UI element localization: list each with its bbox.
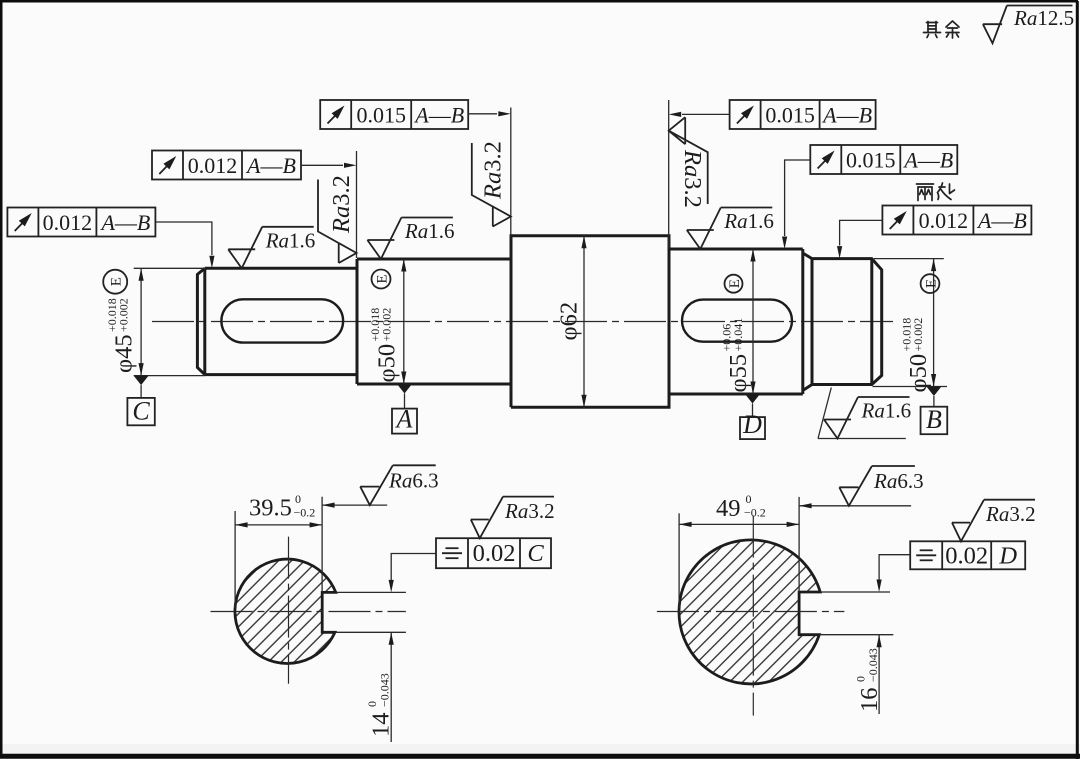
extension line of φ45/φ50 shoulder (356, 151, 358, 258)
φ50 dimension line with arrows (left) (403, 259, 405, 384)
datum B symbol (926, 387, 941, 397)
svg-text:39.5: 39.5 (249, 495, 292, 522)
Ra3.2 rotated at φ45/φ50 shoulder (318, 180, 357, 264)
right section vertical centerline (752, 516, 754, 716)
svg-text:D: D (742, 410, 762, 439)
dimension 39.5 extension lines (234, 511, 236, 608)
Ra6.3 symbol for right section (839, 466, 915, 506)
svg-text:Ra6.3: Ra6.3 (873, 469, 924, 493)
shaft section φ55 outline (669, 249, 803, 394)
Ra1.6 on φ45 surface (228, 227, 314, 268)
svg-text:Ra3.2: Ra3.2 (679, 149, 706, 208)
svg-text:0.015: 0.015 (765, 103, 815, 128)
svg-text:A—B: A—B (245, 153, 296, 178)
left section vertical centerline (288, 537, 290, 684)
FCF runout 0.012 A-B (far left) (7, 208, 155, 237)
FCF runout 0.015 A-B (top middle) (320, 100, 468, 129)
shaft section φ62 outline (511, 236, 669, 407)
svg-text:+0.002: +0.002 (117, 298, 131, 332)
svg-text:0.012: 0.012 (43, 210, 93, 235)
keyway slot on φ55 section (682, 300, 792, 342)
Ra6.3 leader for left section (322, 504, 387, 506)
svg-text:0.02: 0.02 (473, 540, 516, 567)
svg-text:B: B (926, 405, 942, 434)
datum C symbol (134, 376, 149, 386)
svg-text:E: E (924, 279, 940, 288)
Ra3.2 above symmetry FCF (left) (471, 497, 554, 539)
Ra6.3 symbol for left section (360, 465, 436, 505)
leader of far-left FCF to φ45 surface (155, 222, 212, 255)
φ45 dimension text with tolerance and E (105, 298, 138, 373)
leader of right-middle FCF down to φ55 surface (785, 160, 811, 236)
shaft φ45 chamfer line (203, 268, 206, 374)
label 两处 (two places) (917, 183, 955, 201)
leader of right-upper FCF to φ62 right extension line (682, 113, 730, 115)
Ra1.6 on φ55 surface (687, 208, 773, 250)
svg-text:E: E (727, 279, 743, 288)
Ra1.6 at right-end lower chamfer with leader (818, 388, 906, 439)
svg-text:D: D (998, 542, 1017, 569)
svg-text:Ra6.3: Ra6.3 (388, 469, 439, 493)
shaft main centerline (152, 321, 893, 323)
svg-text:0: 0 (295, 492, 301, 506)
dimension 49 extension lines (678, 513, 680, 608)
dimension text 14 0/-0.043 rotated (365, 673, 395, 737)
extension line of φ62 left face (510, 108, 512, 235)
leader of right-lower FCF down to right-end surface (840, 220, 883, 245)
svg-text:0.015: 0.015 (356, 103, 406, 128)
svg-text:Ra1.6: Ra1.6 (404, 219, 455, 243)
svg-text:A—B: A—B (821, 103, 872, 128)
symmetry FCF 0.02 C (436, 538, 551, 568)
svg-text:Ra12.5: Ra12.5 (1013, 6, 1074, 30)
FCF runout 0.015 A-B (right upper) (730, 100, 876, 129)
keyway width extension lines (right section) (820, 591, 890, 593)
svg-text:+0.002: +0.002 (380, 308, 394, 342)
leader of top-middle FCF to φ62 extension line (468, 113, 497, 115)
svg-text:E: E (375, 274, 391, 283)
svg-text:49: 49 (716, 495, 741, 522)
keyway width extension lines (left section) (336, 591, 406, 593)
φ55 dimension text with tolerance and E (720, 318, 753, 393)
svg-text:0.015: 0.015 (846, 148, 896, 173)
Ra3.2 rotated at φ62 right shoulder (669, 117, 708, 204)
keyway depth dimension 16 with arrows (878, 635, 880, 714)
keyway slot on φ45 section (221, 299, 343, 342)
svg-text:C: C (527, 540, 544, 567)
svg-text:−0.043: −0.043 (866, 648, 880, 682)
φ62 dimension line with arrows (583, 236, 585, 407)
svg-text:A: A (395, 405, 413, 434)
φ50 dimension extension lines (right) (874, 258, 944, 260)
svg-text:+0.002: +0.002 (911, 318, 925, 352)
svg-text:C: C (132, 396, 150, 425)
svg-text:φ50: φ50 (374, 344, 401, 383)
svg-text:0.012: 0.012 (919, 208, 969, 233)
svg-text:0.02: 0.02 (945, 542, 988, 569)
svg-text:A—B: A—B (976, 208, 1027, 233)
svg-text:φ55: φ55 (725, 354, 752, 393)
symmetry FCF 0.02 D (910, 541, 1025, 569)
svg-text:0: 0 (746, 492, 752, 506)
left section hatched circle with keyway (235, 559, 336, 663)
φ50 dimension text with tolerance and E (right) (900, 318, 933, 393)
svg-text:A—B: A—B (99, 210, 150, 235)
Ra3.2 above symmetry FCF (right) (952, 500, 1035, 542)
svg-text:A—B: A—B (902, 148, 953, 173)
FCF runout 0.012 A-B (upper left) (152, 151, 301, 180)
svg-text:Ra1.6: Ra1.6 (265, 228, 316, 252)
Ra3.2 rotated at φ62 left shoulder (472, 143, 511, 227)
FCF runout 0.012 A-B (right lower, two places) (882, 206, 1031, 235)
svg-text:−0.043: −0.043 (378, 673, 392, 707)
Ra6.3 leader for right section (799, 505, 911, 507)
svg-text:Ra1.6: Ra1.6 (723, 209, 774, 233)
right-end chamfer lines (812, 259, 872, 385)
keyway depth dimension 14 with arrows (390, 632, 392, 742)
right section horizontal centerline (657, 611, 845, 613)
datum A symbol (397, 384, 412, 394)
svg-text:Ra3.2: Ra3.2 (480, 141, 507, 200)
datum D symbol (745, 394, 760, 404)
svg-text:−0.2: −0.2 (744, 506, 766, 520)
leader of symmetry FCF to keyway dimension (right) (879, 555, 910, 580)
φ45 dimension line with arrows (140, 268, 142, 375)
φ45 dimension extension lines (134, 267, 205, 269)
其余 (rest) label (924, 21, 960, 38)
svg-text:−0.2: −0.2 (294, 506, 316, 520)
dimension 39.5 line with arrows (235, 524, 322, 526)
FCF runout 0.015 A-B (right middle) (810, 145, 957, 174)
shaft section φ45 outline (197, 268, 357, 374)
φ62 dimension text (556, 302, 583, 341)
svg-text:14: 14 (368, 713, 395, 738)
svg-text:Ra3.2: Ra3.2 (985, 502, 1036, 526)
svg-text:φ45: φ45 (111, 334, 138, 373)
svg-text:0.012: 0.012 (188, 153, 238, 178)
svg-text:φ62: φ62 (556, 302, 583, 341)
svg-text:E: E (109, 277, 125, 286)
svg-text:A—B: A—B (413, 103, 464, 128)
dimension text 16 0/-0.043 rotated (854, 648, 884, 712)
svg-text:Ra3.2: Ra3.2 (504, 499, 555, 523)
leader of symmetry FCF to keyway dimension (391, 554, 436, 581)
leader of upper-left FCF to shoulder extension line (301, 164, 343, 166)
right section hatched circle with keyway (679, 540, 820, 684)
svg-text:+0.041: +0.041 (731, 318, 745, 352)
extension line of φ62 right face (668, 100, 670, 248)
shaft right-end section φ50 outline (804, 254, 882, 391)
φ50 dimension line with arrows (right) (933, 259, 935, 387)
svg-text:Ra3.2: Ra3.2 (328, 175, 355, 234)
left section horizontal centerline (211, 611, 406, 613)
φ50 dimension text with tolerance and E (left) (368, 308, 401, 383)
Ra12.5 general roughness symbol (983, 6, 1073, 44)
svg-text:Ra1.6: Ra1.6 (861, 399, 912, 423)
Ra1.6 on φ50 surface (367, 218, 453, 260)
φ55 dimension line with arrows (752, 249, 754, 394)
shaft section φ50 outline (357, 259, 511, 384)
svg-text:16: 16 (856, 688, 883, 713)
dimension 49 line with arrows (679, 523, 799, 525)
